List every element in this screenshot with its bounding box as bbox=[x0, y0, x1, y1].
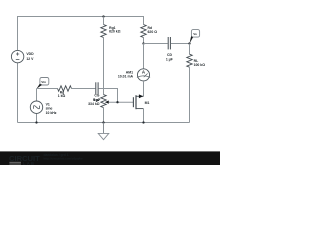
wire Vo node to RL bbox=[189, 44, 191, 55]
svg-text:Vo: Vo bbox=[193, 32, 197, 36]
svg-text:Vin: Vin bbox=[41, 80, 46, 84]
wire Rg1 bottom to Rg2 top bbox=[103, 38, 105, 95]
voltage source VDD bbox=[11, 50, 23, 62]
svg-text:VDD: VDD bbox=[26, 52, 34, 56]
label RL 100 kOhm bbox=[194, 59, 206, 67]
node Vin label box bbox=[37, 78, 49, 89]
wire V1 branch lower (V1 to bottom bus) bbox=[36, 113, 38, 122]
svg-text:12 V: 12 V bbox=[26, 57, 34, 61]
label CD 1 uF bbox=[166, 53, 173, 61]
svg-text:http://circuitlab.com/c6pq4w: http://circuitlab.com/c6pq4w bbox=[44, 156, 84, 160]
wire input row left (Vin node to Rg) bbox=[37, 88, 58, 90]
wire CD to Vo node bbox=[171, 43, 190, 45]
node junction ground bbox=[102, 121, 104, 123]
resistor RL bbox=[187, 54, 192, 67]
resistor Rd bbox=[141, 25, 146, 38]
label Rg1 620 kOhm bbox=[109, 26, 121, 34]
wire input row right (Rg to CG) bbox=[72, 88, 96, 90]
svg-text:10 kHz: 10 kHz bbox=[46, 111, 57, 115]
voltage source V1 (sine) bbox=[30, 101, 42, 113]
node junction rail/Rg1 bbox=[102, 15, 104, 17]
wire Rd top corner bbox=[143, 16, 145, 25]
capacitor CG bbox=[96, 82, 98, 94]
node junction V1 bottom bbox=[35, 121, 37, 123]
potentiometer Rg2 wiper arrow bbox=[105, 101, 109, 104]
resistor Rg bbox=[58, 86, 72, 91]
node junction gate wire / CG branch bbox=[116, 101, 118, 103]
svg-text:M1: M1 bbox=[145, 101, 150, 105]
svg-text:620 kΩ: 620 kΩ bbox=[109, 30, 121, 34]
wire CG to gate drop bbox=[99, 88, 118, 102]
footer CircuitLab logo bbox=[9, 154, 40, 166]
svg-text:1 µF: 1 µF bbox=[166, 57, 173, 61]
label V1 sine 10 kHz bbox=[46, 102, 57, 115]
resistor Rg1 bbox=[101, 25, 106, 38]
label CG 1 uF bbox=[93, 94, 100, 103]
wire ammeter to drain bbox=[143, 81, 145, 96]
label Rg2 334 kOhm bbox=[88, 98, 100, 106]
capacitor CD bbox=[168, 37, 170, 49]
wire left branch lower (VDD source to bottom bus) bbox=[17, 63, 19, 123]
wire bottom bus bbox=[18, 122, 190, 124]
svg-text:10.01 mA: 10.01 mA bbox=[118, 74, 134, 78]
wire left branch upper (rail to VDD source) bbox=[17, 16, 19, 50]
wire drain node to ammeter bbox=[143, 44, 145, 69]
footer bar bbox=[0, 151, 220, 165]
wire top rail VDD bbox=[18, 16, 144, 18]
wire V1 branch upper (input row to V1) bbox=[36, 89, 38, 102]
label AM1 10.01 mA bbox=[118, 71, 134, 79]
transistor M1 (NMOS) bbox=[133, 94, 143, 109]
svg-text:620 Ω: 620 Ω bbox=[148, 30, 158, 34]
label Rg 1 kOhm bbox=[58, 91, 66, 98]
ground bbox=[98, 123, 109, 140]
svg-text:334 kΩ: 334 kΩ bbox=[88, 102, 100, 106]
label Rd 620 Ohm bbox=[148, 26, 158, 34]
wire Rg2 bottom lead bbox=[103, 108, 105, 123]
node Vo junction bbox=[188, 42, 190, 44]
wire Rg1 top lead bbox=[103, 17, 105, 25]
footer text line 1 bbox=[44, 153, 69, 157]
svg-text:LAB: LAB bbox=[23, 161, 35, 165]
wire Rd bottom to drain node bbox=[143, 38, 145, 44]
svg-text:100 kΩ: 100 kΩ bbox=[194, 63, 206, 67]
wire source to bottom bus bbox=[143, 109, 145, 123]
label VDD 12 V bbox=[26, 52, 34, 61]
wire drain node to CD bbox=[144, 43, 168, 45]
ammeter AM1 bbox=[137, 69, 150, 81]
node Vo label box bbox=[190, 30, 200, 44]
node drain junction bbox=[142, 42, 144, 44]
label M1 bbox=[145, 101, 150, 105]
potentiometer Rg2 bbox=[101, 95, 106, 108]
svg-text:1 kΩ: 1 kΩ bbox=[58, 94, 66, 98]
svg-text:CG: CG bbox=[94, 94, 99, 98]
wire RL bottom to bus corner bbox=[189, 67, 191, 122]
footer text line 2 bbox=[44, 156, 84, 160]
wire gate row (wiper to gate) bbox=[109, 101, 134, 103]
node junction source bottom bbox=[142, 121, 144, 123]
